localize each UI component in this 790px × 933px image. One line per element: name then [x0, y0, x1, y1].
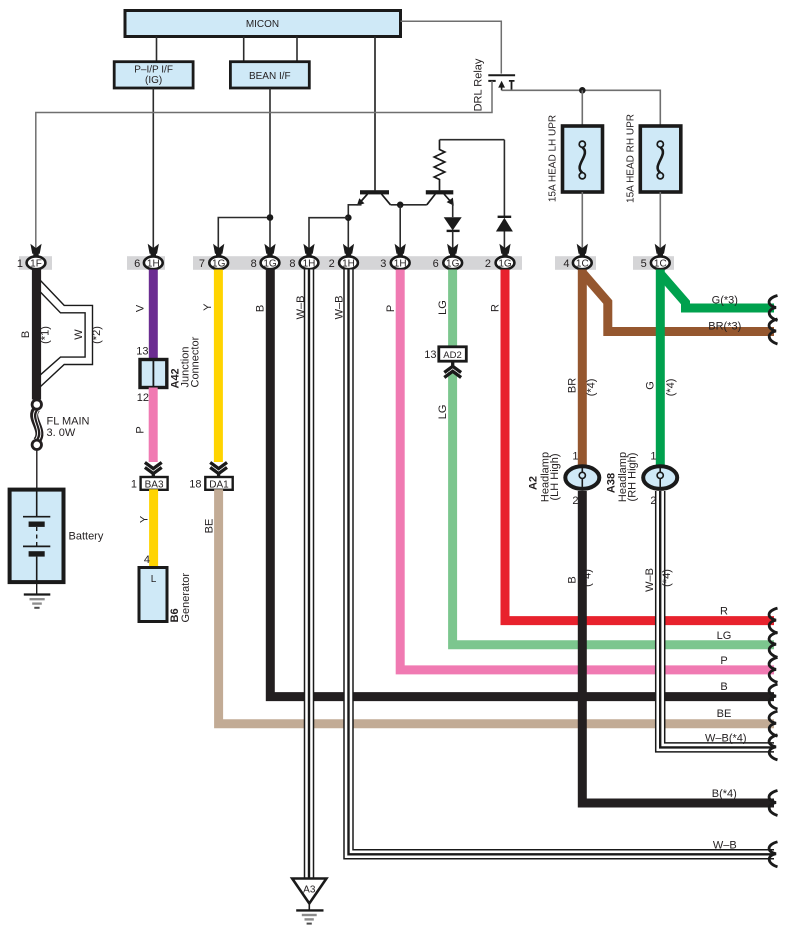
- ground (battery): [24, 595, 51, 608]
- wire node to LH fuse: [581, 90, 583, 126]
- svg-text:P: P: [720, 655, 727, 667]
- svg-text:2: 2: [329, 258, 335, 270]
- wire LH fuse to connector 4 1C: [581, 192, 583, 250]
- svg-text:Connector: Connector: [189, 336, 201, 387]
- break mark R: [769, 608, 777, 633]
- wire R from 2 1G to right edge: [505, 270, 774, 621]
- svg-text:(*4): (*4): [582, 569, 594, 587]
- svg-text:(*1): (*1): [40, 326, 52, 344]
- svg-text:(*4): (*4): [661, 569, 673, 587]
- transistor Q2 base bar: [426, 190, 454, 194]
- svg-text:W–B: W–B: [295, 296, 307, 320]
- break mark G(*3): [769, 296, 777, 321]
- wire diode D2 to connector 2 1G: [503, 232, 505, 250]
- diode D2: [496, 217, 513, 232]
- junction node on 8 1G wire: [267, 214, 274, 221]
- svg-text:LG: LG: [437, 405, 449, 420]
- svg-text:BR(*3): BR(*3): [708, 320, 741, 332]
- svg-text:A3: A3: [303, 885, 316, 896]
- wire BR branch to right edge BR(*3): [584, 274, 775, 332]
- svg-text:4: 4: [144, 554, 150, 566]
- break mark W-B(*4): [769, 735, 777, 760]
- connector strip band (6 1H): [127, 256, 165, 270]
- wire Q1 collector to Q2 emitter: [391, 204, 427, 206]
- fuse 15A HEAD RH UPR: [626, 114, 681, 203]
- svg-text:5: 5: [641, 258, 647, 270]
- svg-text:1H: 1H: [394, 259, 407, 270]
- break mark BR(*3): [769, 319, 777, 344]
- svg-text:DRL Relay: DRL Relay: [473, 58, 485, 111]
- wire Q1 emitter to 2 1H / 8 1H: [348, 205, 361, 250]
- wire B(*4) from LH headlamp to right edge: [582, 491, 774, 803]
- transistor Q2 emitter: [427, 194, 436, 205]
- wire RH fuse to connector 5 1C: [659, 192, 661, 250]
- svg-text:W–B: W–B: [644, 568, 656, 592]
- svg-text:Battery: Battery: [69, 531, 104, 543]
- wire MICON to BEAN I/F (left): [243, 37, 245, 62]
- connector pin 6 of 1G: [433, 244, 462, 270]
- svg-text:P–I/P I/F: P–I/P I/F: [134, 64, 173, 75]
- svg-text:(RH High): (RH High): [627, 453, 639, 502]
- svg-text:4: 4: [563, 258, 569, 270]
- wire node to connector 3 1H: [399, 205, 401, 250]
- svg-text:A2: A2: [528, 476, 540, 490]
- BEAN I/F box: [230, 62, 309, 88]
- svg-text:1G: 1G: [446, 259, 460, 270]
- svg-text:W–B(*4): W–B(*4): [705, 732, 747, 744]
- wire Y from BA3 to generator: [149, 489, 158, 568]
- connector pin 3 of 1H: [380, 244, 409, 270]
- svg-text:18: 18: [189, 479, 201, 491]
- break mark P: [769, 657, 777, 682]
- svg-text:1G: 1G: [498, 259, 512, 270]
- wire P from A42 to BA3: [149, 388, 158, 463]
- svg-text:B: B: [567, 576, 579, 583]
- wire Y from 7 1G to DA1: [214, 270, 223, 463]
- wire DRL Relay drain down-left to long feed: [36, 81, 492, 250]
- junction node above LH fuse: [579, 87, 586, 94]
- connector pin 2 of 1G: [485, 244, 515, 270]
- svg-text:MICON: MICON: [246, 19, 279, 30]
- wire riser from 7 1G to node on 8 1G wire: [218, 218, 270, 250]
- svg-text:A38: A38: [606, 473, 618, 493]
- DRL Relay right channel stub: [509, 81, 515, 90]
- svg-text:G: G: [644, 381, 656, 390]
- svg-text:BE: BE: [203, 519, 215, 534]
- wire W-B from 2 1H to right edge: [349, 270, 775, 855]
- wire node to connector 8 1H: [309, 218, 348, 250]
- break mark B(*4): [769, 791, 777, 816]
- svg-text:BR: BR: [567, 378, 579, 393]
- svg-text:(IG): (IG): [145, 75, 162, 86]
- svg-text:8: 8: [289, 258, 295, 270]
- arrow into BA3: [145, 462, 162, 477]
- svg-text:13: 13: [424, 349, 436, 361]
- svg-text:1: 1: [17, 258, 23, 270]
- wire top rail to diode D2: [503, 140, 505, 217]
- svg-text:6: 6: [433, 258, 439, 270]
- wire LG upper from 6 1G to AD2: [448, 270, 457, 348]
- svg-text:Y: Y: [139, 515, 151, 523]
- svg-text:1H: 1H: [303, 259, 316, 270]
- wire MICON right edge to DRL Relay gate: [401, 21, 502, 73]
- generator B6: [139, 568, 192, 623]
- svg-text:B: B: [20, 331, 32, 338]
- svg-text:2: 2: [485, 258, 491, 270]
- svg-text:1H: 1H: [342, 259, 355, 270]
- transistor Q1 collector: [382, 194, 391, 205]
- connector pin 1 of 1F: [17, 244, 46, 270]
- connector pin 4 of 1C: [563, 244, 591, 270]
- MICON U1 box: [125, 11, 401, 37]
- svg-text:B: B: [720, 681, 727, 693]
- svg-text:Generator: Generator: [180, 573, 192, 623]
- wire MICON to P-I/P I/F: [156, 37, 158, 62]
- break mark BE: [769, 711, 777, 736]
- svg-text:15A HEAD LH UPR: 15A HEAD LH UPR: [548, 115, 559, 202]
- connector strip band (1F): [19, 256, 52, 270]
- transistor Q1 base bar: [360, 190, 389, 194]
- wire BEAN I/F to connector 8 1G: [269, 88, 271, 250]
- svg-text:BA3: BA3: [145, 479, 164, 490]
- svg-text:FL MAIN: FL MAIN: [47, 416, 90, 428]
- headlamp A2 (LH High): [528, 452, 600, 502]
- svg-text:1: 1: [131, 479, 137, 491]
- headlamp A38 (RH High): [606, 452, 678, 502]
- svg-text:7: 7: [199, 258, 205, 270]
- fusible link FL MAIN 3.0W: [32, 400, 89, 450]
- connector pin 2 of 1H: [329, 244, 358, 270]
- wire FL MAIN to battery: [36, 450, 38, 491]
- P-I/P I/F box: [114, 62, 193, 88]
- wire resistor top to diode D2: [440, 139, 505, 141]
- connector strip band (1G/1H group): [193, 256, 522, 270]
- connector pin 8 of 1G: [251, 244, 280, 270]
- svg-text:G(*3): G(*3): [712, 295, 738, 307]
- DRL Relay left channel stub: [488, 80, 495, 82]
- svg-text:3. 0W: 3. 0W: [47, 427, 76, 439]
- svg-text:B(*4): B(*4): [712, 788, 737, 800]
- svg-text:P: P: [385, 305, 397, 312]
- wire DRL Relay output to fuses: [502, 90, 661, 126]
- wire B from 1F (battery feed): [32, 270, 41, 400]
- svg-text:(*2): (*2): [91, 326, 103, 344]
- wire MICON to BEAN I/F (right): [296, 37, 298, 62]
- connector pin 8 of 1H: [289, 244, 318, 270]
- svg-text:8: 8: [251, 258, 257, 270]
- DRL Relay source arrow: [498, 81, 505, 88]
- svg-text:(LH High): (LH High): [549, 453, 561, 500]
- svg-text:B: B: [254, 305, 266, 312]
- svg-text:Y: Y: [202, 303, 214, 311]
- ground A3: [292, 879, 326, 924]
- connector pin 6 of 1H: [134, 244, 163, 270]
- wire MICON to transistor Q1 base: [374, 37, 376, 191]
- svg-text:1G: 1G: [263, 259, 277, 270]
- svg-text:1G: 1G: [212, 259, 226, 270]
- battery: [10, 490, 104, 582]
- connector DA1: [205, 477, 232, 490]
- wire BR from 4 1C to LH headlamp: [578, 270, 587, 468]
- break mark LG: [769, 632, 777, 657]
- wire W (*2) bypass outline: [40, 280, 93, 387]
- break mark B: [769, 684, 777, 709]
- svg-text:1: 1: [572, 451, 578, 463]
- svg-text:1C: 1C: [654, 259, 667, 270]
- junction node to 3 1H: [397, 202, 404, 209]
- svg-text:6: 6: [134, 258, 140, 270]
- connector pin 5 of 1C: [641, 244, 670, 270]
- svg-text:BE: BE: [717, 708, 732, 720]
- connector strip band (5 1C): [633, 256, 674, 270]
- DRL Relay gate bar: [488, 74, 515, 76]
- wire W-B(*4) from RH headlamp to right edge: [660, 491, 774, 747]
- svg-text:R: R: [489, 304, 501, 312]
- wire battery to ground: [36, 582, 38, 595]
- connector strip band (4 1C): [555, 256, 596, 270]
- fuse 15A HEAD LH UPR: [548, 115, 603, 202]
- svg-text:DA1: DA1: [209, 479, 229, 490]
- wire G branch to right edge G(*3): [662, 275, 775, 308]
- connector AD2: [439, 347, 467, 361]
- wire G from 5 1C to RH headlamp: [656, 270, 665, 468]
- diode D1: [444, 217, 462, 231]
- wire Q2 collector to diode D1: [452, 204, 454, 218]
- break mark W-B: [769, 842, 777, 867]
- wire diode D1 to connector 6 1G: [452, 231, 454, 250]
- svg-text:2: 2: [650, 495, 656, 507]
- svg-text:W–B: W–B: [713, 839, 737, 851]
- svg-text:LG: LG: [437, 300, 449, 315]
- junction node on 2 1H wire: [345, 214, 352, 221]
- arrow into DA1: [210, 462, 227, 477]
- junction connector A42: [140, 336, 201, 388]
- wire W-B from 8 1H to ground A3: [304, 270, 315, 880]
- svg-text:2: 2: [572, 495, 578, 507]
- connector BA3: [141, 477, 168, 490]
- svg-text:P: P: [135, 426, 147, 433]
- svg-text:1F: 1F: [30, 259, 42, 270]
- svg-text:BEAN I/F: BEAN I/F: [249, 71, 291, 82]
- svg-text:(*4): (*4): [665, 379, 677, 397]
- resistor R1: [434, 140, 445, 191]
- svg-text:AD2: AD2: [443, 350, 461, 361]
- svg-text:1: 1: [650, 451, 656, 463]
- transistor Q1 emitter (arrow down-left): [360, 194, 368, 203]
- svg-text:13: 13: [136, 346, 148, 358]
- svg-text:(*4): (*4): [585, 379, 597, 397]
- arrow up into AD2: [444, 362, 461, 377]
- svg-text:L: L: [151, 574, 157, 585]
- wire LG lower from AD2 to right edge: [453, 372, 774, 645]
- connector pin 7 of 1G: [199, 244, 228, 270]
- wire V from 6 1H to junction connector A42: [149, 270, 158, 361]
- svg-text:12: 12: [137, 392, 149, 404]
- svg-text:R: R: [720, 606, 728, 618]
- wire P from 3 1H to right edge: [400, 270, 774, 670]
- svg-text:1H: 1H: [147, 259, 160, 270]
- wire B from 8 1G to right edge: [270, 270, 774, 697]
- wire BE from DA1 to right edge: [219, 489, 774, 724]
- transistor Q2 collector (arrow down-right): [444, 194, 452, 203]
- svg-text:15A HEAD RH UPR: 15A HEAD RH UPR: [626, 114, 637, 203]
- wire P-I/P I/F to connector 6 1H: [152, 88, 154, 250]
- svg-text:V: V: [135, 304, 147, 312]
- svg-text:LG: LG: [717, 630, 732, 642]
- svg-text:W–B: W–B: [333, 296, 345, 320]
- svg-text:1C: 1C: [576, 259, 589, 270]
- svg-text:3: 3: [380, 258, 386, 270]
- svg-text:W: W: [73, 329, 85, 340]
